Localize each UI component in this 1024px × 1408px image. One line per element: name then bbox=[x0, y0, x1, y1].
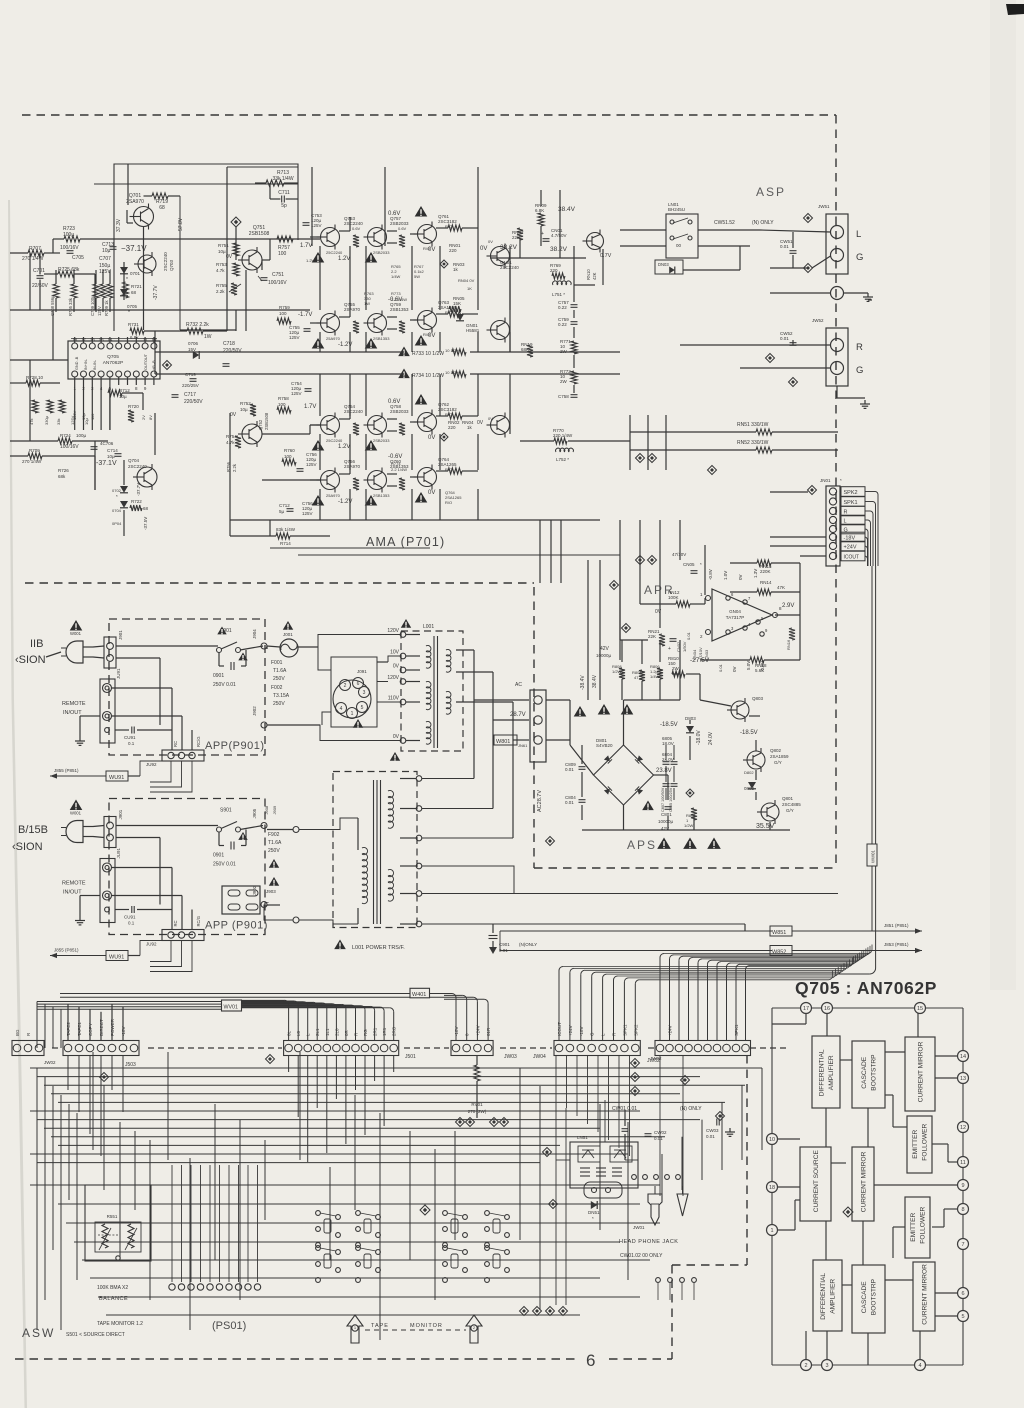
svg-text:0.6V: 0.6V bbox=[352, 226, 361, 231]
svg-text:10: 10 bbox=[769, 1137, 775, 1143]
svg-text:R709 1k: R709 1k bbox=[104, 299, 109, 316]
svg-text:17: 17 bbox=[803, 1006, 809, 1012]
svg-text:REMOTE: REMOTE bbox=[62, 701, 86, 707]
svg-text:35.5V: 35.5V bbox=[756, 823, 775, 830]
svg-text:100/16V: 100/16V bbox=[268, 280, 287, 286]
svg-text:-37.7V: -37.7V bbox=[136, 483, 141, 496]
svg-text:12: 12 bbox=[960, 1125, 966, 1131]
svg-text:125V: 125V bbox=[97, 306, 102, 316]
svg-text:38.4V: 38.4V bbox=[558, 206, 576, 213]
svg-text:2SB1353: 2SB1353 bbox=[373, 493, 390, 498]
svg-text:2SB1353: 2SB1353 bbox=[373, 336, 390, 341]
svg-text:C712: C712 bbox=[279, 503, 290, 508]
svg-text:W851: W851 bbox=[772, 930, 786, 936]
svg-text:15K: 15K bbox=[453, 301, 461, 306]
svg-text:220: 220 bbox=[448, 425, 456, 430]
svg-text:Q803: Q803 bbox=[752, 696, 764, 701]
svg-text:-37.5V: -37.5V bbox=[143, 517, 148, 530]
svg-text:IN/OUT: IN/OUT bbox=[63, 890, 82, 896]
svg-text:L001 POWER TRS/F.: L001 POWER TRS/F. bbox=[352, 945, 405, 951]
svg-text:REMOTE: REMOTE bbox=[62, 881, 86, 887]
svg-text:R732 2.2k: R732 2.2k bbox=[186, 322, 209, 328]
svg-text:JN01: JN01 bbox=[820, 478, 831, 483]
svg-text:9: 9 bbox=[961, 1183, 964, 1189]
svg-text:4.7/50V: 4.7/50V bbox=[551, 233, 567, 238]
svg-text:CURRENT MIRROR: CURRENT MIRROR bbox=[860, 1151, 867, 1212]
svg-text:J001: J001 bbox=[283, 632, 293, 637]
svg-text:0V: 0V bbox=[480, 246, 487, 252]
svg-text:0705: 0705 bbox=[127, 304, 138, 309]
svg-text:C717: C717 bbox=[184, 392, 196, 398]
svg-text:2SB1508: 2SB1508 bbox=[249, 231, 270, 237]
svg-text:2SB2033: 2SB2033 bbox=[373, 250, 390, 255]
svg-text:0.6V: 0.6V bbox=[388, 211, 400, 217]
svg-text:JW04: JW04 bbox=[533, 1054, 546, 1060]
svg-text:10000µ: 10000µ bbox=[658, 819, 674, 824]
svg-text:2L1: 2L1 bbox=[315, 1028, 320, 1036]
svg-text:0.1: 0.1 bbox=[128, 741, 135, 746]
svg-text:AC: AC bbox=[515, 682, 522, 688]
svg-text:2.9V: 2.9V bbox=[782, 603, 794, 609]
svg-text:(PS01): (PS01) bbox=[212, 1320, 246, 1332]
svg-text:WU91: WU91 bbox=[109, 775, 124, 781]
svg-text:R709: R709 bbox=[29, 448, 40, 453]
svg-text:125V: 125V bbox=[291, 391, 302, 396]
svg-text:SPK2: SPK2 bbox=[844, 490, 858, 496]
svg-text:OUTOUT: OUTOUT bbox=[144, 353, 148, 370]
svg-text:33k: 33k bbox=[56, 419, 61, 425]
svg-text:1.3V: 1.3V bbox=[753, 569, 758, 578]
svg-text:0.01: 0.01 bbox=[654, 1136, 663, 1141]
svg-text:C901: C901 bbox=[499, 942, 510, 947]
svg-text:+: + bbox=[668, 646, 671, 652]
svg-text:R753: R753 bbox=[216, 262, 227, 267]
svg-text:BOOTSTRP: BOOTSTRP bbox=[871, 1054, 878, 1091]
svg-text:IN+IN-: IN+IN- bbox=[84, 358, 88, 370]
svg-text:1: 1 bbox=[351, 711, 354, 717]
svg-text:R705 33k: R705 33k bbox=[68, 297, 73, 316]
svg-text:J904: J904 bbox=[252, 629, 257, 639]
svg-text:RN16: RN16 bbox=[786, 639, 791, 650]
svg-text:‹SION: ‹SION bbox=[12, 841, 43, 853]
svg-text:C805 100/25V: C805 100/25V bbox=[669, 787, 673, 812]
svg-text:10µ: 10µ bbox=[218, 249, 226, 254]
svg-text:120V: 120V bbox=[387, 675, 399, 681]
svg-text:−37.1V: −37.1V bbox=[121, 244, 147, 253]
svg-text:CW03: CW03 bbox=[706, 1128, 719, 1133]
svg-text:R731: R731 bbox=[128, 322, 139, 327]
svg-text:100: 100 bbox=[278, 251, 287, 257]
svg-text:1.2V: 1.2V bbox=[338, 444, 350, 450]
svg-text:5p: 5p bbox=[281, 203, 287, 209]
svg-text:2SA1859: 2SA1859 bbox=[770, 754, 789, 759]
svg-text:15: 15 bbox=[917, 1006, 923, 1012]
svg-text:3: 3 bbox=[825, 1363, 828, 1369]
svg-text:0702: 0702 bbox=[112, 488, 122, 493]
svg-text:-1.7V: -1.7V bbox=[298, 312, 312, 318]
svg-text:WV01: WV01 bbox=[224, 1005, 238, 1011]
svg-text:JW03: JW03 bbox=[504, 1054, 517, 1060]
svg-text:1.7V: 1.7V bbox=[300, 243, 312, 249]
svg-text:10 1/2W: 10 1/2W bbox=[445, 348, 460, 353]
svg-text:2.2 1/4W: 2.2 1/4W bbox=[391, 467, 407, 472]
svg-text:R551: R551 bbox=[107, 1214, 118, 1219]
svg-text:Q802: Q802 bbox=[770, 748, 782, 753]
svg-text:0V: 0V bbox=[428, 435, 435, 441]
svg-text:IN/OUT: IN/OUT bbox=[63, 710, 82, 716]
svg-text:18: 18 bbox=[769, 1185, 775, 1191]
svg-text:C718: C718 bbox=[223, 341, 235, 347]
svg-text:ASW: ASW bbox=[22, 1326, 55, 1340]
svg-text:RG: RG bbox=[363, 1029, 368, 1036]
svg-text:RC: RC bbox=[173, 741, 178, 747]
svg-text:100: 100 bbox=[284, 454, 292, 459]
svg-text:1.7V: 1.7V bbox=[304, 404, 316, 410]
svg-text:R758: R758 bbox=[278, 396, 289, 401]
svg-text:C705: C705 bbox=[72, 255, 84, 261]
svg-text:100/16V: 100/16V bbox=[60, 245, 79, 251]
svg-text:2SA970: 2SA970 bbox=[344, 307, 361, 312]
svg-text:2SB1508: 2SB1508 bbox=[264, 412, 269, 430]
svg-text:T1.6A: T1.6A bbox=[273, 668, 287, 674]
svg-text:EMITTER: EMITTER bbox=[910, 1213, 917, 1242]
svg-text:100/16V: 100/16V bbox=[60, 444, 79, 450]
svg-text:110: 110 bbox=[90, 413, 95, 420]
svg-text:10V: 10V bbox=[390, 650, 400, 656]
svg-text:0.7V: 0.7V bbox=[600, 253, 612, 259]
svg-text:BALANCE: BALANCE bbox=[99, 1296, 128, 1302]
svg-text:0.22: 0.22 bbox=[558, 322, 567, 327]
svg-text:1.2V: 1.2V bbox=[338, 256, 350, 262]
svg-text:125V: 125V bbox=[72, 410, 77, 420]
svg-text:JU92: JU92 bbox=[146, 762, 157, 767]
svg-text:0V: 0V bbox=[732, 666, 737, 672]
svg-text:J503: J503 bbox=[125, 1062, 136, 1068]
svg-text:11: 11 bbox=[960, 1160, 966, 1166]
svg-text:R: R bbox=[856, 342, 863, 353]
svg-text:Q705: Q705 bbox=[107, 354, 119, 360]
svg-text:68: 68 bbox=[143, 506, 149, 511]
svg-text:42V: 42V bbox=[600, 646, 610, 652]
svg-text:J902: J902 bbox=[252, 706, 257, 716]
svg-text:0.6V: 0.6V bbox=[388, 399, 400, 405]
svg-text:Q801: Q801 bbox=[782, 796, 794, 801]
svg-text:220: 220 bbox=[449, 248, 457, 253]
svg-text:R760: R760 bbox=[284, 448, 295, 453]
svg-text:T3.15A: T3.15A bbox=[273, 693, 290, 699]
svg-text:-18V: -18V bbox=[844, 536, 856, 542]
svg-text:10µ: 10µ bbox=[240, 407, 248, 412]
svg-text:AMPLIFIER: AMPLIFIER bbox=[830, 1279, 837, 1314]
svg-text:7: 7 bbox=[961, 1242, 964, 1248]
svg-text:TA7317P: TA7317P bbox=[726, 615, 744, 620]
svg-text:J853 (P851): J853 (P851) bbox=[884, 942, 909, 947]
svg-text:WW01: WW01 bbox=[871, 849, 876, 863]
svg-text:25A970: 25A970 bbox=[326, 493, 341, 498]
svg-text:0V: 0V bbox=[393, 734, 400, 740]
svg-text:2SB1353: 2SB1353 bbox=[390, 307, 409, 312]
svg-text:6.8k: 6.8k bbox=[130, 335, 139, 340]
svg-text:2SB2033: 2SB2033 bbox=[390, 409, 409, 414]
svg-text:0706: 0706 bbox=[188, 341, 199, 346]
svg-text:S4VB20: S4VB20 bbox=[596, 743, 613, 748]
svg-text:R714: R714 bbox=[280, 541, 291, 546]
svg-text:220K: 220K bbox=[760, 569, 771, 574]
svg-text:RC: RC bbox=[173, 920, 178, 926]
svg-text:0901: 0901 bbox=[213, 673, 224, 679]
svg-text:BH245U: BH245U bbox=[668, 207, 685, 212]
svg-text:100: 100 bbox=[279, 311, 287, 316]
svg-text:C751: C751 bbox=[272, 272, 284, 278]
svg-text:5: 5 bbox=[961, 1314, 964, 1320]
svg-text:6: 6 bbox=[357, 681, 360, 687]
svg-text:RN51 330/1W: RN51 330/1W bbox=[737, 422, 769, 428]
svg-text:R: R bbox=[844, 510, 848, 516]
svg-text:38.2V: 38.2V bbox=[500, 244, 518, 251]
svg-text:G/Y: G/Y bbox=[786, 808, 794, 813]
svg-text:250V: 250V bbox=[273, 676, 285, 682]
svg-text:1k: 1k bbox=[453, 267, 459, 272]
svg-text:0L: 0L bbox=[287, 1030, 292, 1036]
svg-text:1/50V: 1/50V bbox=[682, 641, 687, 652]
svg-text:R752: R752 bbox=[240, 401, 251, 406]
svg-text:-0.8V: -0.8V bbox=[708, 569, 713, 580]
svg-text:0.1: 0.1 bbox=[128, 921, 135, 926]
svg-text:-27.5V: -27.5V bbox=[690, 657, 710, 664]
svg-text:ICOUT: ICOUT bbox=[844, 555, 860, 561]
svg-text:110V: 110V bbox=[388, 696, 400, 702]
svg-text:0.6V: 0.6V bbox=[398, 226, 407, 231]
svg-text:0.22: 0.22 bbox=[558, 305, 567, 310]
svg-text:38.2V: 38.2V bbox=[550, 246, 568, 253]
svg-text:0V: 0V bbox=[230, 412, 237, 418]
svg-text:0.01: 0.01 bbox=[780, 336, 789, 341]
svg-text:AC28.7V: AC28.7V bbox=[537, 790, 543, 812]
svg-text:GND -B: GND -B bbox=[75, 356, 79, 370]
svg-text:J501: J501 bbox=[405, 1054, 416, 1060]
svg-text:16: 16 bbox=[824, 1006, 830, 1012]
svg-text:J903: J903 bbox=[266, 889, 276, 894]
svg-text:220/50V: 220/50V bbox=[184, 399, 203, 405]
svg-text:2W: 2W bbox=[560, 349, 568, 354]
svg-text:1R1: 1R1 bbox=[382, 1027, 387, 1036]
svg-text:0.01: 0.01 bbox=[565, 800, 574, 805]
svg-text:CASCADE: CASCADE bbox=[861, 1281, 868, 1313]
svg-text:MONITOR: MONITOR bbox=[410, 1323, 443, 1329]
svg-text:18.0V: 18.0V bbox=[662, 741, 674, 746]
svg-text:S501 < SOURCE DIRECT: S501 < SOURCE DIRECT bbox=[66, 1332, 125, 1338]
svg-text:2SA970: 2SA970 bbox=[344, 464, 361, 469]
svg-text:83k 1/4W: 83k 1/4W bbox=[276, 527, 296, 532]
svg-text:J855 (P851): J855 (P851) bbox=[54, 948, 79, 953]
svg-text:R759: R759 bbox=[279, 305, 290, 310]
svg-text:1.2V: 1.2V bbox=[306, 258, 315, 263]
svg-text:IN-IN-: IN-IN- bbox=[93, 359, 97, 370]
svg-text:+24V: +24V bbox=[844, 545, 857, 551]
svg-text:CURRENT SOURCE: CURRENT SOURCE bbox=[813, 1150, 820, 1213]
svg-text:DIFFERENTIAL: DIFFERENTIAL bbox=[820, 1273, 827, 1320]
svg-text:68k: 68k bbox=[58, 474, 66, 479]
svg-text:2SC4885: 2SC4885 bbox=[782, 802, 801, 807]
svg-text:-18.5V: -18.5V bbox=[740, 730, 758, 736]
svg-text:2.2k: 2.2k bbox=[216, 289, 225, 294]
svg-text:W001: W001 bbox=[70, 631, 82, 636]
svg-text:L001: L001 bbox=[423, 624, 434, 630]
svg-text:2SC2240: 2SC2240 bbox=[163, 252, 168, 271]
svg-text:3: 3 bbox=[363, 690, 366, 696]
svg-text:25A970: 25A970 bbox=[326, 336, 341, 341]
svg-text:AMA (P701): AMA (P701) bbox=[366, 535, 445, 549]
svg-text:2L0: 2L0 bbox=[334, 1028, 339, 1036]
svg-text:R724: R724 bbox=[60, 433, 71, 438]
svg-text:-18.5V: -18.5V bbox=[660, 722, 678, 728]
svg-text:18: 18 bbox=[72, 337, 78, 342]
svg-text:10: 10 bbox=[151, 337, 157, 342]
svg-text:DN03: DN03 bbox=[658, 262, 669, 267]
svg-text:5W: 5W bbox=[414, 274, 420, 279]
svg-text:G: G bbox=[856, 252, 863, 263]
svg-text:R721: R721 bbox=[131, 284, 142, 289]
svg-text:L: L bbox=[856, 229, 861, 240]
svg-text:15V: 15V bbox=[188, 347, 196, 352]
svg-text:68: 68 bbox=[131, 290, 137, 295]
svg-text:24.0V: 24.0V bbox=[708, 731, 714, 745]
svg-text:R722: R722 bbox=[131, 499, 142, 504]
svg-text:220/25V: 220/25V bbox=[182, 383, 199, 388]
svg-text:16: 16 bbox=[90, 337, 96, 342]
svg-text:125V: 125V bbox=[289, 335, 300, 340]
svg-text:*: * bbox=[126, 277, 128, 283]
svg-text:14: 14 bbox=[107, 337, 113, 342]
svg-text:38.4V: 38.4V bbox=[592, 674, 598, 688]
svg-text:RN14: RN14 bbox=[760, 580, 772, 585]
svg-text:D802: D802 bbox=[744, 770, 754, 775]
svg-text:R726: R726 bbox=[58, 468, 69, 473]
svg-text:5µ: 5µ bbox=[279, 509, 285, 514]
svg-text:2SA970: 2SA970 bbox=[126, 199, 144, 205]
svg-text:47: 47 bbox=[634, 675, 639, 680]
svg-text:1.0V: 1.0V bbox=[723, 571, 728, 580]
svg-text:4: 4 bbox=[340, 706, 343, 712]
svg-text:-37.7V: -37.7V bbox=[153, 285, 159, 300]
svg-text:220/50V: 220/50V bbox=[223, 348, 242, 354]
svg-text:W001: W001 bbox=[70, 811, 82, 816]
svg-text:68: 68 bbox=[159, 205, 165, 211]
svg-text:JW52: JW52 bbox=[812, 318, 824, 323]
svg-text:JU92: JU92 bbox=[146, 942, 157, 947]
svg-text:6.8K: 6.8K bbox=[535, 208, 544, 213]
svg-text:JW51: JW51 bbox=[818, 204, 830, 209]
svg-text:0701: 0701 bbox=[130, 271, 141, 276]
svg-text:2.2 1/4W: 2.2 1/4W bbox=[391, 297, 407, 302]
svg-text:RC/G: RC/G bbox=[196, 916, 201, 926]
svg-text:Q704: Q704 bbox=[128, 458, 140, 463]
svg-text:15: 15 bbox=[99, 337, 105, 342]
svg-text:FOLLOWER: FOLLOWER bbox=[920, 1206, 927, 1243]
svg-text:AN7062P: AN7062P bbox=[103, 360, 124, 366]
svg-text:S901: S901 bbox=[220, 808, 232, 814]
svg-text:8V: 8V bbox=[148, 415, 153, 420]
svg-text:L: L bbox=[844, 519, 847, 525]
svg-text:J909: J909 bbox=[272, 805, 277, 814]
svg-text:250V: 250V bbox=[273, 701, 285, 707]
svg-text:4: 4 bbox=[918, 1363, 921, 1369]
svg-text:R728 10: R728 10 bbox=[26, 375, 44, 380]
svg-text:EMITTER: EMITTER bbox=[912, 1130, 919, 1159]
svg-text:R720: R720 bbox=[128, 404, 139, 409]
svg-text:R725 68k: R725 68k bbox=[58, 267, 80, 273]
svg-text:L0: L0 bbox=[296, 1030, 301, 1036]
svg-text:JU91: JU91 bbox=[116, 847, 121, 858]
svg-text:J905: J905 bbox=[252, 808, 257, 818]
svg-text:0V: 0V bbox=[488, 239, 493, 244]
svg-text:BOOTSTRP: BOOTSTRP bbox=[871, 1278, 878, 1315]
svg-text:CASCADE: CASCADE bbox=[861, 1056, 868, 1088]
svg-text:100K BMA X2: 100K BMA X2 bbox=[97, 1285, 128, 1291]
svg-text:J908: J908 bbox=[264, 805, 269, 814]
svg-text:J851 (P851): J851 (P851) bbox=[884, 923, 909, 928]
svg-text:2: 2 bbox=[804, 1363, 807, 1369]
svg-text:5: 5 bbox=[361, 705, 364, 711]
svg-text:‹SION: ‹SION bbox=[15, 654, 46, 666]
svg-text:WU91: WU91 bbox=[109, 955, 124, 961]
svg-text:(N)ONLY: (N)ONLY bbox=[519, 942, 537, 947]
svg-text:01R: 01R bbox=[486, 1027, 491, 1036]
svg-text:R774: R774 bbox=[391, 461, 401, 466]
svg-text:*: * bbox=[128, 310, 130, 316]
svg-text:25C2240: 25C2240 bbox=[326, 250, 343, 255]
svg-text:*: * bbox=[592, 1216, 594, 1221]
svg-text:FOLLOWER: FOLLOWER bbox=[922, 1123, 929, 1160]
svg-text:J091: J091 bbox=[357, 669, 367, 674]
svg-text:0V: 0V bbox=[655, 609, 662, 615]
svg-text:1W: 1W bbox=[364, 301, 370, 306]
svg-text:250V: 250V bbox=[268, 848, 280, 854]
svg-text:F902: F902 bbox=[268, 832, 280, 838]
svg-text:C807 100/50V: C807 100/50V bbox=[661, 787, 665, 812]
svg-text:APP (P901): APP (P901) bbox=[205, 920, 268, 932]
svg-text:17: 17 bbox=[81, 337, 87, 342]
svg-text:BG: BG bbox=[15, 1029, 20, 1036]
svg-text:TAPE: TAPE bbox=[371, 1323, 389, 1329]
svg-text:*: * bbox=[116, 494, 118, 499]
svg-text:0V: 0V bbox=[488, 416, 493, 421]
svg-text:-18.0V: -18.0V bbox=[696, 730, 702, 745]
svg-text:2RO: 2RO bbox=[392, 1026, 397, 1036]
svg-text:1L1: 1L1 bbox=[325, 1028, 330, 1036]
svg-text:F001: F001 bbox=[271, 660, 283, 666]
svg-text:0V: 0V bbox=[738, 574, 743, 580]
svg-text:G/Y: G/Y bbox=[774, 760, 782, 765]
svg-text:JN61: JN61 bbox=[518, 743, 528, 748]
svg-text:C707: C707 bbox=[99, 256, 111, 262]
svg-text:125V: 125V bbox=[306, 462, 317, 467]
svg-text:2SB2033: 2SB2033 bbox=[373, 438, 390, 443]
svg-text:G: G bbox=[856, 365, 863, 376]
svg-text:B/15B: B/15B bbox=[18, 824, 48, 836]
svg-text:L752 *: L752 * bbox=[556, 457, 569, 462]
svg-text:100µ: 100µ bbox=[76, 433, 87, 438]
svg-text:TAPE MONITOR 1.2: TAPE MONITOR 1.2 bbox=[97, 1321, 143, 1327]
svg-text:37.3V: 37.3V bbox=[116, 218, 122, 232]
svg-text:C711: C711 bbox=[278, 190, 290, 196]
svg-text:CW01.02 00 ONLY: CW01.02 00 ONLY bbox=[620, 1253, 663, 1259]
svg-text:4C706: 4C706 bbox=[100, 441, 114, 446]
svg-text:0P04: 0P04 bbox=[112, 521, 122, 526]
svg-text:2SC2240: 2SC2240 bbox=[500, 265, 519, 270]
svg-text:2V: 2V bbox=[141, 415, 146, 420]
svg-text:CU91: CU91 bbox=[124, 735, 136, 740]
